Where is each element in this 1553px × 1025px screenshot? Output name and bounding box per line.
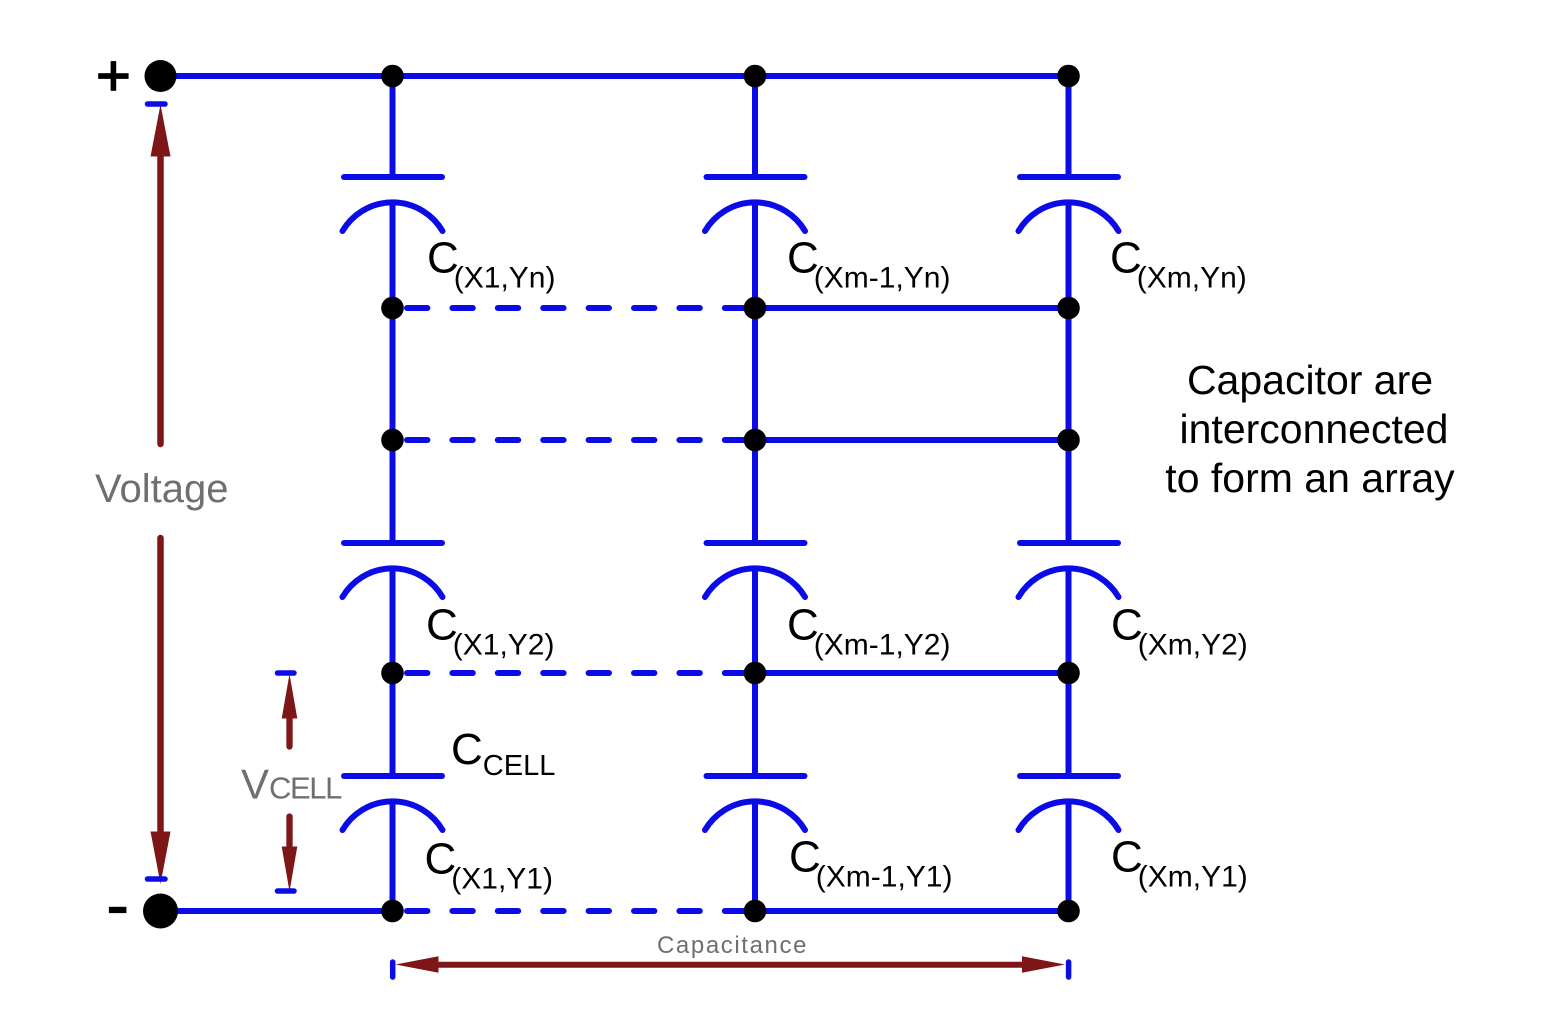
capacitor C(Xm-1,Y2) <box>705 543 805 597</box>
wire row Yn solid <box>755 305 1069 311</box>
wire column Xm-1 segments <box>752 76 758 911</box>
junction dots row mid <box>381 429 1080 452</box>
annotation capacitor array note <box>1165 357 1455 501</box>
junction dots bottom rail <box>381 900 1080 923</box>
capacitance arrow left tick <box>390 962 396 977</box>
voltage arrow bottom tick <box>148 876 166 882</box>
capacitor C(Xm,Y2) <box>1019 543 1119 597</box>
Capacitance dimension arrow <box>396 956 1066 972</box>
junction dots row Yn <box>381 297 1080 320</box>
svg-text:Voltage: Voltage <box>95 467 228 511</box>
minus terminal symbol <box>109 907 127 913</box>
capacitor C(Xm,Y1) <box>1019 776 1119 830</box>
voltage arrow top tick <box>148 101 166 107</box>
capacitor C(Xm,Yn) <box>1019 177 1119 231</box>
svg-text:to form an array: to form an array <box>1165 455 1455 501</box>
wire bottom negative rail left solid <box>161 908 393 914</box>
wire bottom rail dashed X1 to Xm-1 <box>407 908 751 914</box>
wire column X1 segments <box>390 76 396 911</box>
junction dots row Y2 <box>381 662 1080 685</box>
capacitor C_CELL / C(X1,Y1) <box>343 776 443 830</box>
wire row Y2 solid <box>755 670 1069 676</box>
node + terminal dot <box>145 60 177 92</box>
node - terminal dot <box>143 894 178 929</box>
wire bottom rail solid Xm-1 to Xm <box>755 908 1069 914</box>
capacitor C(Xm-1,Yn) <box>705 177 805 231</box>
wire row Yn dashed <box>407 305 751 311</box>
svg-text:Capacitance: Capacitance <box>657 932 808 959</box>
wire top positive rail <box>161 73 1069 79</box>
svg-text:interconnected: interconnected <box>1180 406 1449 452</box>
wire row mid solid <box>755 437 1069 443</box>
wire row mid dashed <box>407 437 751 443</box>
Voltage dimension arrow <box>151 105 171 885</box>
wire row Y2 dashed <box>407 670 751 676</box>
capacitor C(Xm-1,Y1) <box>705 776 805 830</box>
vcell arrow top tick <box>278 670 295 676</box>
Vcell dimension arrow <box>282 674 298 892</box>
junction dots top rail <box>381 65 1080 88</box>
capacitance arrow right tick <box>1066 962 1072 977</box>
capacitor C(X1,Y2) <box>343 543 443 597</box>
plus terminal symbol <box>98 61 128 91</box>
svg-text:Capacitor are: Capacitor are <box>1187 357 1433 403</box>
vcell arrow bottom tick <box>278 888 295 894</box>
wire column Xm segments <box>1066 76 1072 911</box>
capacitor C(X1,Yn) <box>343 177 443 231</box>
